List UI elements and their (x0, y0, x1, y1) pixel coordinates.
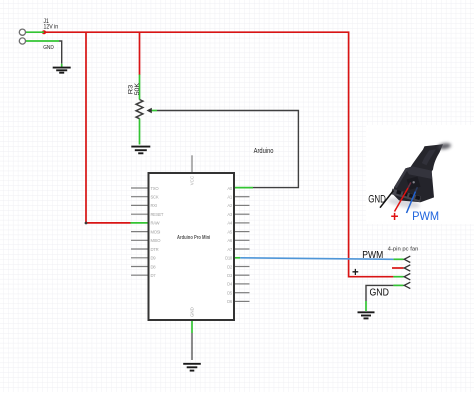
svg-text:VCC: VCC (190, 176, 195, 185)
svg-text:GND: GND (190, 307, 195, 317)
svg-text:PWM: PWM (362, 250, 383, 261)
svg-text:50K: 50K (135, 83, 141, 96)
svg-text:Arduino: Arduino (254, 146, 274, 155)
svg-text:R3: R3 (129, 84, 135, 94)
svg-text:GND: GND (43, 45, 54, 51)
svg-text:GND: GND (370, 288, 389, 299)
svg-text:MISO: MISO (151, 238, 162, 243)
svg-text:RAW: RAW (151, 221, 160, 226)
svg-text:DTR: DTR (151, 247, 159, 252)
svg-text:SCK: SCK (151, 195, 159, 200)
svg-text:GND: GND (368, 193, 386, 205)
svg-text:TXO: TXO (151, 186, 160, 191)
svg-text:D10: D10 (225, 256, 233, 261)
svg-text:+: + (391, 209, 399, 224)
svg-text:RXI: RXI (151, 203, 157, 208)
svg-text:12V in: 12V in (44, 24, 59, 30)
svg-text:MOSI: MOSI (151, 229, 161, 234)
svg-text:Arduino Pro Mini: Arduino Pro Mini (177, 235, 211, 241)
svg-text:4-pin pc fan: 4-pin pc fan (388, 246, 419, 252)
svg-text:+: + (352, 267, 359, 279)
svg-text:PWM: PWM (412, 209, 439, 223)
svg-text:RESET: RESET (151, 212, 164, 217)
